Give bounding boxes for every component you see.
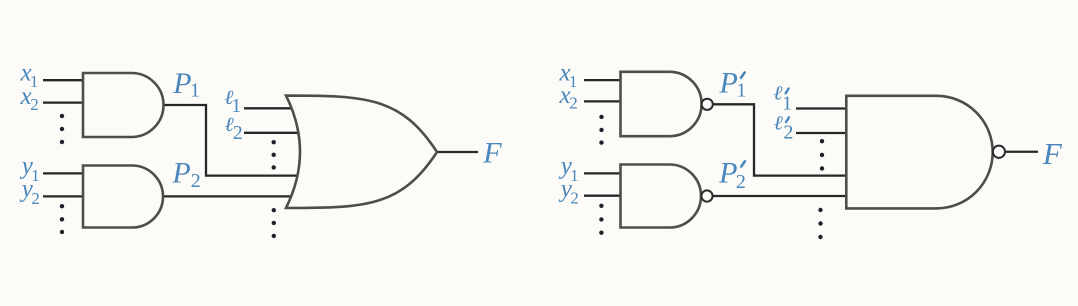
svg-text:2: 2 xyxy=(31,189,40,208)
wire y1 to NAND2 xyxy=(584,172,622,174)
OR gate xyxy=(286,96,437,208)
dots below x2 xyxy=(60,114,64,118)
bubble big NAND xyxy=(993,146,1005,158)
dots below y2 xyxy=(60,204,64,208)
svg-text:ℓ: ℓ xyxy=(774,113,784,135)
big NAND gate xyxy=(846,96,992,209)
wire l1 to OR xyxy=(244,107,298,109)
svg-text:F: F xyxy=(1042,136,1063,171)
AND gate 2 (y inputs) xyxy=(83,166,163,228)
wire x2 to NAND1 xyxy=(584,100,622,102)
svg-text:P: P xyxy=(172,67,191,100)
svg-text:2: 2 xyxy=(191,170,201,192)
wire F output left xyxy=(437,151,478,153)
wire x2 to AND1 xyxy=(43,101,84,103)
svg-text:1: 1 xyxy=(736,80,746,102)
svg-text:P: P xyxy=(171,157,190,190)
svg-text:P: P xyxy=(718,157,737,190)
dots big NAND lower inputs xyxy=(818,208,822,212)
wire l'1 to big NAND xyxy=(796,107,847,109)
wire F output right xyxy=(1005,151,1038,153)
svg-text:2: 2 xyxy=(570,189,579,208)
wire x1 to AND1 xyxy=(43,79,84,81)
AND gate 1 (x inputs) xyxy=(83,73,164,137)
svg-text:2: 2 xyxy=(736,171,746,193)
svg-text:2: 2 xyxy=(783,122,793,144)
dots below y2 right xyxy=(599,204,603,208)
wire P2: AND2 output to OR input xyxy=(163,195,306,197)
dots OR lower inputs xyxy=(272,208,276,212)
svg-text:1: 1 xyxy=(782,93,792,115)
dots below x2 right xyxy=(599,115,603,119)
svg-text:2: 2 xyxy=(233,122,243,144)
svg-text:P: P xyxy=(719,66,738,99)
wire y1 to AND2 xyxy=(43,172,84,174)
NAND gate 2 (y inputs) xyxy=(621,165,702,228)
svg-text:2: 2 xyxy=(569,94,578,113)
svg-text:F: F xyxy=(482,136,502,169)
svg-text:1: 1 xyxy=(190,80,200,102)
wire x1 to NAND1 xyxy=(584,79,622,81)
wire l2 to OR xyxy=(244,132,306,134)
wire P'2: NAND2 output to big NAND xyxy=(713,195,848,197)
bubble NAND2 xyxy=(701,190,712,201)
NAND gate 1 (x inputs) xyxy=(621,72,702,136)
wire P'1: NAND1 output to big NAND xyxy=(713,104,847,175)
svg-text:2: 2 xyxy=(30,95,39,114)
bubble NAND1 xyxy=(702,99,713,110)
wire P1: AND1 output to OR input xyxy=(163,105,305,176)
wire y2 to AND2 xyxy=(43,195,84,197)
dots OR middle inputs xyxy=(272,140,276,144)
wire l'2 to big NAND xyxy=(796,132,847,134)
dots big NAND middle inputs xyxy=(820,139,824,143)
wire y2 to NAND2 xyxy=(584,195,622,197)
